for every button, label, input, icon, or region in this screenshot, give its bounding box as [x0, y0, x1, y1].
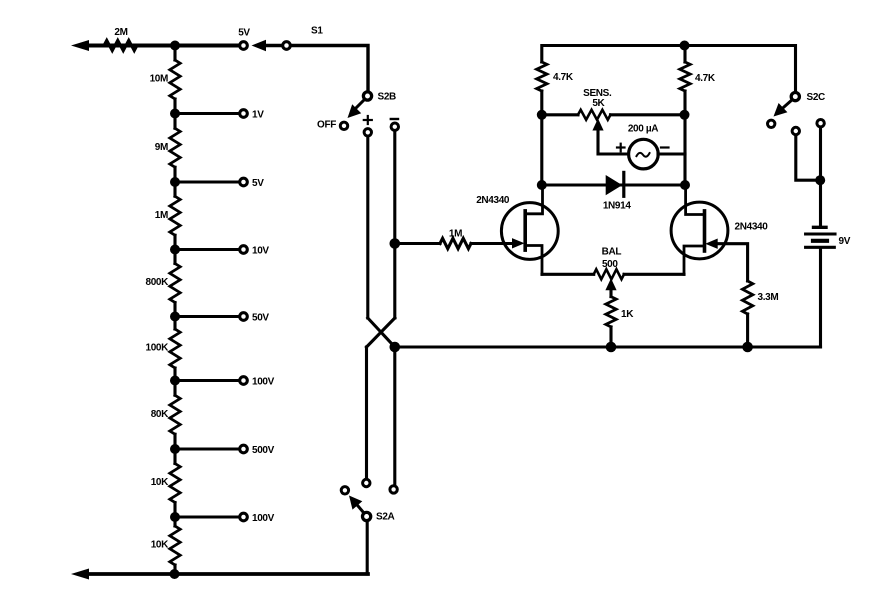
terminal S2C contact right — [817, 120, 824, 127]
node junction bottom of ladder — [170, 569, 180, 579]
terminal S2A contact B — [390, 486, 397, 493]
terminal S2C pole — [791, 93, 799, 101]
wire ladder segment above 80K — [173, 381, 176, 396]
svg-text:5V: 5V — [238, 28, 250, 39]
terminal S2C contact mid — [792, 127, 799, 134]
node junction pot row right — [680, 110, 690, 120]
potentiometer SENS. 5K — [578, 110, 611, 120]
svg-text:50V: 50V — [252, 313, 269, 324]
node junction diode row left — [537, 180, 547, 190]
wire tap 5V — [175, 180, 239, 183]
wire lower left lead to S2A — [365, 347, 368, 478]
node junction gate tap — [390, 238, 401, 249]
wire battery top lead — [819, 128, 822, 225]
terminal 1V — [240, 110, 248, 118]
wire ladder segment above 10K — [173, 517, 176, 526]
wiper arrow SENS pot — [592, 119, 603, 131]
resistor 4.7K right — [680, 62, 690, 91]
terminal S2A contact A — [363, 479, 370, 486]
label - (probe minus) — [391, 118, 398, 120]
meter M1 200uA — [629, 139, 659, 169]
svg-text:OFF: OFF — [317, 120, 336, 131]
svg-text:2M: 2M — [114, 27, 127, 38]
svg-text:2N4340: 2N4340 — [735, 222, 769, 233]
svg-text:500: 500 — [602, 259, 618, 270]
diode 1N914 — [606, 175, 623, 195]
node tap 100V — [170, 376, 180, 386]
node tap 100V — [170, 512, 180, 522]
wire 1M to gate — [471, 242, 512, 245]
resistor 10K — [170, 464, 180, 503]
switch arm S2C — [780, 101, 791, 111]
wire wiper to 1K — [609, 289, 612, 297]
wire ladder segment above 10K — [173, 449, 176, 464]
wire right vertical pot-to-diode — [683, 115, 686, 185]
label - meter — [661, 146, 669, 148]
resistor 9M — [170, 128, 180, 167]
wire S2A pole to bottom rail — [366, 522, 369, 575]
wire bottom rail right section — [395, 345, 821, 348]
svg-text:4.7K: 4.7K — [553, 72, 574, 83]
wire tap 10V — [175, 248, 239, 251]
resistor 1M — [440, 238, 471, 248]
switch arm S2B — [352, 101, 364, 113]
wire ladder segment below 800K — [173, 303, 176, 317]
svg-text:200 µA: 200 µA — [628, 124, 658, 135]
svg-text:4.7K: 4.7K — [695, 73, 716, 84]
wire left vertical pot-to-diode — [540, 115, 543, 185]
terminal S2A pole — [363, 512, 371, 520]
wire top rail left section — [86, 44, 239, 48]
svg-text:5K: 5K — [592, 98, 605, 109]
gate arrow Q2 — [705, 239, 718, 249]
svg-text:100V: 100V — [252, 513, 275, 524]
svg-text:3.3M: 3.3M — [758, 292, 779, 303]
terminal - probe — [391, 123, 398, 130]
wire gate lead Q1 — [395, 242, 440, 245]
resistor 3.3M — [742, 281, 752, 314]
terminal S2B pole — [363, 92, 371, 100]
wire ladder segment below 10K — [173, 503, 176, 518]
wire ladder segment above 10M — [173, 46, 176, 61]
output arrow (left, bottom) — [71, 569, 89, 580]
wire bottom rail — [86, 572, 368, 576]
wire ladder segment below 1M — [173, 235, 176, 249]
wire pot row — [542, 113, 578, 116]
transistor Q1 2N4340 left — [501, 203, 558, 260]
gate arrow Q1 — [512, 238, 525, 248]
wire diode row — [542, 183, 685, 186]
resistor 10K — [170, 526, 180, 565]
svg-text:2N4340: 2N4340 — [476, 195, 510, 206]
resistor 1K — [606, 297, 616, 327]
potentiometer BAL 500 — [594, 269, 624, 279]
terminal S2C off contact — [768, 120, 775, 127]
label + meter — [617, 146, 625, 148]
svg-text:S2B: S2B — [378, 92, 397, 103]
svg-text:10V: 10V — [252, 246, 269, 257]
wire battery bottom lead — [819, 249, 822, 347]
terminal 500V — [240, 445, 248, 453]
svg-text:S1: S1 — [311, 26, 323, 37]
svg-text:1M: 1M — [449, 229, 462, 240]
wire crossover X — [368, 318, 395, 347]
wire meter to right branch — [658, 152, 685, 155]
resistor 2M — [104, 40, 137, 50]
terminal S1 pole — [283, 42, 291, 50]
node tap 50V — [170, 312, 180, 322]
svg-text:1N914: 1N914 — [603, 201, 632, 212]
svg-text:10K: 10K — [151, 477, 169, 488]
wire tap 500V — [175, 447, 239, 450]
svg-text:9M: 9M — [155, 142, 168, 153]
terminal 50V — [240, 313, 248, 321]
svg-text:S2C: S2C — [807, 92, 826, 103]
node junction top of ladder — [170, 41, 180, 51]
wire ladder segment below 10M — [173, 99, 176, 114]
svg-text:100V: 100V — [252, 377, 275, 388]
node tap 10V — [170, 245, 180, 255]
input arrow (left, top) — [71, 40, 89, 51]
wire tap 100V — [175, 515, 239, 518]
node tap 500V — [170, 444, 180, 454]
wire ladder segment below 10K — [173, 565, 176, 574]
node junction top rail — [680, 41, 690, 51]
wire right 4.7K branch — [683, 46, 686, 63]
wire lower right lead to S2A — [393, 347, 396, 485]
switch arm S2A — [356, 503, 364, 513]
svg-text:80K: 80K — [151, 409, 169, 420]
node junction diode row right — [680, 180, 690, 190]
node junction pot row left — [537, 110, 547, 120]
svg-text:10M: 10M — [150, 74, 168, 85]
svg-text:1M: 1M — [155, 210, 168, 221]
terminal 100V — [240, 377, 248, 385]
wire ladder segment above 100K — [173, 317, 176, 330]
resistor 4.7K left — [537, 62, 547, 91]
wire S1 to S2B corner — [292, 46, 368, 91]
terminal 5V (range contact) — [240, 42, 248, 50]
terminal 10V — [240, 246, 248, 254]
terminal S2A off contact — [341, 487, 348, 494]
resistor 80K — [170, 395, 180, 434]
node junction battery branch — [815, 175, 825, 185]
svg-text:S2A: S2A — [376, 512, 395, 523]
wire S2C mid contact to battery branch — [796, 135, 820, 180]
terminal 100V — [240, 513, 248, 521]
battery B1 9V — [814, 226, 827, 229]
terminal 5V — [240, 178, 248, 186]
wire 1K to bottom rail — [609, 327, 612, 347]
svg-text:1K: 1K — [621, 309, 634, 320]
wire tap 100V — [175, 379, 239, 382]
wire ladder segment above 800K — [173, 250, 176, 264]
svg-text:800K: 800K — [145, 277, 169, 288]
wire ladder segment below 9M — [173, 167, 176, 182]
wire gate lead Q2 to 3.3M — [719, 244, 748, 281]
node tap 1V — [170, 109, 180, 119]
wire tap 50V — [175, 315, 239, 318]
svg-text:9V: 9V — [839, 236, 851, 247]
node junction crossover to rail — [390, 342, 401, 353]
svg-text:BAL: BAL — [602, 247, 622, 258]
svg-text:500V: 500V — [252, 445, 275, 456]
terminal OFF contact — [340, 122, 347, 129]
svg-text:5V: 5V — [252, 178, 264, 189]
wire source row (BAL row) — [542, 273, 594, 276]
rotary wiper arrow S1 — [252, 40, 267, 52]
wire wiper to meter — [598, 129, 626, 154]
wire 3.3M to bottom rail — [746, 314, 749, 347]
wiper arrow BAL pot — [605, 278, 616, 290]
wire ladder segment below 80K — [173, 434, 176, 449]
wire - lead down — [393, 131, 396, 318]
resistor 100K — [170, 329, 180, 368]
label + (probe plus) — [364, 119, 372, 121]
node junction 1K bottom — [606, 342, 617, 353]
wire + lead down — [366, 137, 369, 318]
wire top rail right section — [540, 91, 543, 115]
terminal + probe — [364, 129, 371, 136]
node tap 5V — [170, 177, 180, 187]
wire tap 1V — [175, 112, 239, 115]
svg-text:1V: 1V — [252, 110, 264, 121]
resistor 800K — [170, 264, 180, 303]
transistor Q2 2N4340 right — [671, 202, 728, 259]
svg-text:100K: 100K — [145, 343, 169, 354]
resistor 10M — [170, 60, 180, 99]
resistor 1M — [170, 196, 180, 235]
wire ladder segment below 100K — [173, 368, 176, 381]
node junction 3.3M bottom — [742, 342, 753, 353]
wire ladder segment above 9M — [173, 114, 176, 129]
svg-text:10K: 10K — [151, 540, 169, 551]
wire ladder segment above 1M — [173, 182, 176, 196]
